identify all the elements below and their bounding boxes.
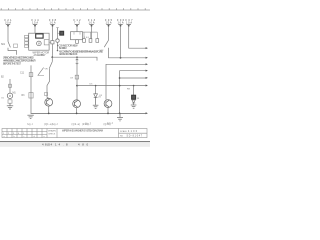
svg-text:10A: 10A — [89, 22, 95, 25]
collector wire Q3 to off-page — [106, 64, 146, 100]
node E — [95, 85, 97, 87]
svg-text:(Q2-a): (Q2-a) — [72, 124, 81, 126]
svg-text:M: M — [38, 42, 40, 45]
node A — [51, 56, 53, 58]
svg-text:10A: 10A — [126, 22, 132, 25]
wire drop x=91.5 — [91, 26, 93, 39]
switch S1 blade — [8, 42, 10, 48]
svg-text:.8: .8 — [63, 143, 68, 147]
wire horizontal y=85.6 — [77, 85, 146, 87]
bus junction dots — [48, 113, 50, 115]
wire drop x=35 — [34, 26, 36, 33]
zener D1 — [95, 86, 97, 94]
ground G2 at bus left end — [27, 115, 33, 118]
connector label box — [14, 44, 18, 48]
lamp branch x=57.5 — [56, 27, 59, 29]
stub to relay K1 — [58, 32, 60, 34]
svg-text:S01: S01 — [1, 44, 6, 46]
left pin headers — [25, 35, 29, 47]
ground bus — [31, 112, 146, 114]
power feed node dots with bars — [6, 24, 131, 26]
ground G1 — [7, 103, 13, 109]
svg-text:M: M — [9, 94, 11, 98]
ground G3 at x=120 — [117, 113, 123, 121]
svg-text:VR: VR — [45, 68, 48, 70]
wire drop pump — [9, 79, 11, 93]
node C — [120, 57, 122, 59]
title block scribbles — [27, 121, 113, 126]
footer bar — [0, 141, 150, 143]
control unit box U1 — [29, 33, 49, 50]
diode D2 — [132, 100, 135, 103]
ground below D2 — [131, 103, 137, 108]
top ruler line — [0, 9, 150, 11]
svg-text:SD-81047: SD-81047 — [127, 136, 143, 138]
svg-text:Sig.4: Sig.4 — [107, 121, 113, 125]
node F — [119, 77, 121, 79]
power feed labels row — [5, 19, 134, 25]
node G — [119, 85, 121, 87]
connector module J1 — [71, 32, 83, 40]
inline connector C2 — [9, 84, 12, 87]
relay K1 — [60, 31, 64, 35]
right cluster: node H — [133, 85, 135, 87]
inline connector C11 — [29, 73, 33, 77]
note text block center — [57, 44, 103, 56]
wire x=77 lower with inline connector — [76, 57, 78, 100]
switch S3 — [108, 26, 110, 40]
svg-text:14: 14 — [55, 143, 60, 147]
wire drop x=52.5 — [52, 26, 54, 41]
svg-text:Sig.2: Sig.2 — [52, 122, 58, 126]
ground below zener — [93, 98, 99, 109]
svg-text:30A: 30A — [5, 22, 11, 25]
svg-text:7.5: 7.5 — [74, 22, 81, 25]
wire drop x=77 top — [76, 26, 78, 32]
wire x=119.6 vertical — [120, 71, 146, 114]
title block — [2, 129, 147, 138]
box below motor — [8, 100, 12, 103]
footnote labels — [44, 124, 111, 126]
wire drop x=120.5 — [120, 26, 122, 58]
connector box on x=77 — [75, 75, 78, 79]
lamp L1 — [56, 39, 59, 42]
off-page arrows — [146, 47, 148, 114]
wire x=31 branch — [30, 65, 32, 113]
svg-text:NO: NO — [120, 136, 124, 138]
svg-text:BEFORE THE TEST: BEFORE THE TEST — [3, 63, 22, 66]
resistor R3 — [29, 93, 33, 98]
ruler tick marks — [1, 8, 145, 10]
title block texts — [3, 130, 127, 138]
svg-text:Sig.3: Sig.3 — [85, 122, 91, 126]
wire horizontal y=57.2 — [52, 57, 97, 60]
wire to note — [8, 48, 17, 55]
wire to off-page y=57.8 — [109, 48, 147, 58]
svg-text:10A: 10A — [50, 22, 56, 25]
relay block DRB — [36, 34, 43, 38]
motor M2 inside box — [37, 41, 42, 46]
svg-text:15A: 15A — [32, 22, 38, 25]
wire y=78 to off-page — [120, 77, 146, 79]
svg-text:4 8|G4: 4 8|G4 — [42, 143, 52, 147]
wire from module to drop x=91.5 — [83, 31, 98, 33]
right sub-box — [44, 40, 49, 45]
connector pins C-boxes — [76, 39, 99, 44]
node B — [76, 56, 78, 58]
wire jog to transistor Q1 — [47, 69, 50, 99]
svg-text:Sig.1: Sig.1 — [27, 122, 33, 126]
node D — [76, 85, 78, 87]
svg-text:DRAWN: DRAWN — [48, 130, 56, 133]
base marks Q1 — [45, 92, 48, 95]
resistor R9 dark box — [132, 95, 136, 99]
switch S2 — [51, 57, 53, 61]
svg-text:4 8 0: 4 8 0 — [78, 143, 88, 147]
rheostat arrow — [38, 68, 44, 76]
svg-text:GROUND CHECK OK: GROUND CHECK OK — [59, 53, 78, 56]
transistor Q3 — [104, 100, 112, 108]
svg-text:c: c — [24, 136, 25, 138]
svg-text:10A: 10A — [118, 22, 124, 25]
svg-text:CHECK: CHECK — [48, 134, 56, 136]
wire drop x=128.7 to off-page — [129, 26, 146, 48]
transistor Q2 — [73, 100, 81, 108]
svg-text:SCALE: SCALE — [120, 130, 127, 133]
note text block left — [3, 57, 36, 66]
transistor Q1 — [45, 98, 53, 106]
motor M1 — [7, 93, 12, 98]
svg-text:WIPER AND WASHER SYSTEM DIAGRA: WIPER AND WASHER SYSTEM DIAGRAM — [62, 130, 103, 133]
connector box on wire x=52.5 — [51, 41, 54, 44]
svg-text:15A: 15A — [106, 22, 112, 25]
wire drop x=8 — [7, 26, 9, 42]
